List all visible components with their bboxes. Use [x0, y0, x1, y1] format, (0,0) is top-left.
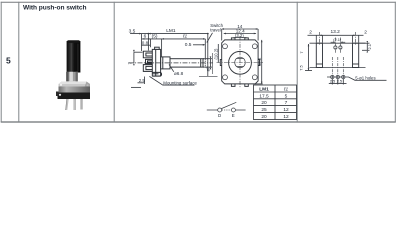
front view centerlines: [217, 37, 264, 88]
photo: terminal pins: [65, 99, 82, 110]
dimension 2 right: [353, 35, 364, 42]
mounting plane extension line: [199, 75, 218, 77]
row number 5: [6, 56, 11, 66]
dimension row 6 / (5) / l1: [142, 38, 205, 58]
header: With push-on switch: [23, 5, 86, 12]
dimension 0.8: [142, 44, 151, 46]
dimension 14 (front view): [222, 28, 258, 40]
bottom hole centerlines: [332, 57, 343, 82]
svg-text:LM1: LM1: [166, 28, 176, 34]
side view centerline: [129, 62, 214, 64]
svg-text:Mounting surface: Mounting surface: [163, 80, 197, 85]
bottom tabs: [231, 84, 248, 87]
svg-text:2: 2: [364, 30, 367, 36]
dimension 2.5 bottom-left: [131, 77, 145, 88]
dimension 0.5 switch travel: [193, 44, 205, 46]
long horizontal plate lines: [310, 43, 366, 67]
photo: bushing collar: [66, 72, 78, 82]
svg-text:5-ø1 holes: 5-ø1 holes: [355, 76, 375, 81]
right mounting slot: [353, 43, 359, 67]
svg-text:2.5: 2.5: [337, 79, 342, 84]
label 5-dia1 holes: [327, 77, 387, 80]
left vertical dimension 7: [133, 50, 142, 65]
svg-text:ø6: ø6: [206, 66, 211, 72]
svg-text:0.5: 0.5: [185, 42, 192, 48]
photo: body top plate: [59, 82, 91, 88]
svg-text:ℓ1: ℓ1: [283, 87, 289, 93]
svg-text:3.5: 3.5: [129, 28, 136, 34]
svg-text:12: 12: [283, 114, 289, 120]
svg-text:13.2: 13.2: [257, 57, 262, 66]
left mounting slot: [316, 43, 322, 67]
front view shaft circle with flats: [235, 57, 245, 68]
label dia 6.8: [169, 65, 174, 72]
front view body square: [220, 38, 259, 87]
dimension 12.4 (front view): [224, 33, 256, 35]
table grid lines: [1, 2, 396, 122]
front view corner screws: [223, 44, 258, 80]
side view body top bump: [155, 47, 160, 49]
side view body rectangle: [152, 49, 160, 76]
svg-text:20: 20: [261, 114, 267, 120]
svg-text:7.5: 7.5: [298, 64, 303, 70]
svg-text:5: 5: [285, 93, 288, 99]
svg-text:With push-on switch: With push-on switch: [23, 5, 86, 12]
svg-text:5: 5: [6, 56, 11, 66]
svg-text:25: 25: [261, 107, 267, 113]
switch terminal holes (top pair): [334, 46, 342, 49]
terminals (bent pins, left of body): [143, 51, 161, 76]
svg-text:ℓ1: ℓ1: [182, 34, 188, 40]
svg-text:7: 7: [285, 100, 288, 106]
svg-text:D: D: [218, 113, 221, 118]
photo: body front face: [59, 87, 91, 95]
dimension (2.1) center top: [333, 37, 342, 42]
dimension 2 left: [308, 35, 323, 42]
svg-text:2.5: 2.5: [139, 78, 146, 83]
svg-text:2.5: 2.5: [330, 79, 335, 84]
label Switch travel: [210, 23, 223, 28]
left vertical dimension (10.2): [217, 44, 219, 63]
side view bushing: [161, 57, 170, 69]
top tabs: [231, 38, 248, 40]
svg-text:(5): (5): [152, 34, 158, 40]
photo: black base: [56, 92, 90, 100]
label Mounting surface: [149, 76, 194, 85]
svg-text:0.8: 0.8: [142, 40, 149, 45]
svg-text:13.2: 13.2: [331, 29, 341, 35]
svg-text:(10.2): (10.2): [214, 48, 219, 60]
shaft pushed position dashed: [203, 58, 208, 60]
right vertical dimension 13.2: [255, 40, 263, 84]
dimension (3.2) (front view): [234, 37, 247, 39]
svg-text:12: 12: [283, 107, 289, 113]
extension line right of shaft: [212, 53, 214, 74]
top hole centerlines: [335, 38, 340, 54]
photo: encoder shaft: [67, 40, 81, 72]
dimension 3.5 (top-left): [130, 33, 209, 76]
dimension LM1 label: [166, 28, 176, 34]
svg-text:6: 6: [144, 34, 147, 40]
bottom bent terminal: [152, 72, 161, 76]
front view bushing circle: [229, 51, 252, 74]
dimension 2.5 2.5 below holes: [329, 79, 347, 85]
svg-text:travel: travel: [210, 28, 221, 33]
svg-text:(3.2): (3.2): [235, 33, 244, 38]
side view shaft: [170, 59, 203, 67]
svg-text:20: 20: [261, 100, 267, 106]
svg-text:2.1: 2.1: [367, 44, 372, 49]
side nubs: [220, 60, 259, 66]
left vertical dimension 7 / 7.5: [305, 44, 312, 71]
svg-text:ø6.8: ø6.8: [174, 71, 184, 76]
svg-text:17.5: 17.5: [259, 93, 269, 99]
slot centerline stubs: [319, 32, 355, 45]
svg-text:LM1: LM1: [259, 87, 269, 93]
svg-text:2: 2: [309, 30, 312, 36]
right vertical dimension shaft dia: [203, 56, 212, 69]
right vertical dimension 2.1: [359, 41, 370, 53]
dimension 13.2 (right drawing): [319, 34, 355, 36]
svg-text:(2.1): (2.1): [333, 37, 342, 42]
encoder terminal holes (bottom row): [331, 75, 345, 78]
svg-text:E: E: [232, 113, 235, 118]
